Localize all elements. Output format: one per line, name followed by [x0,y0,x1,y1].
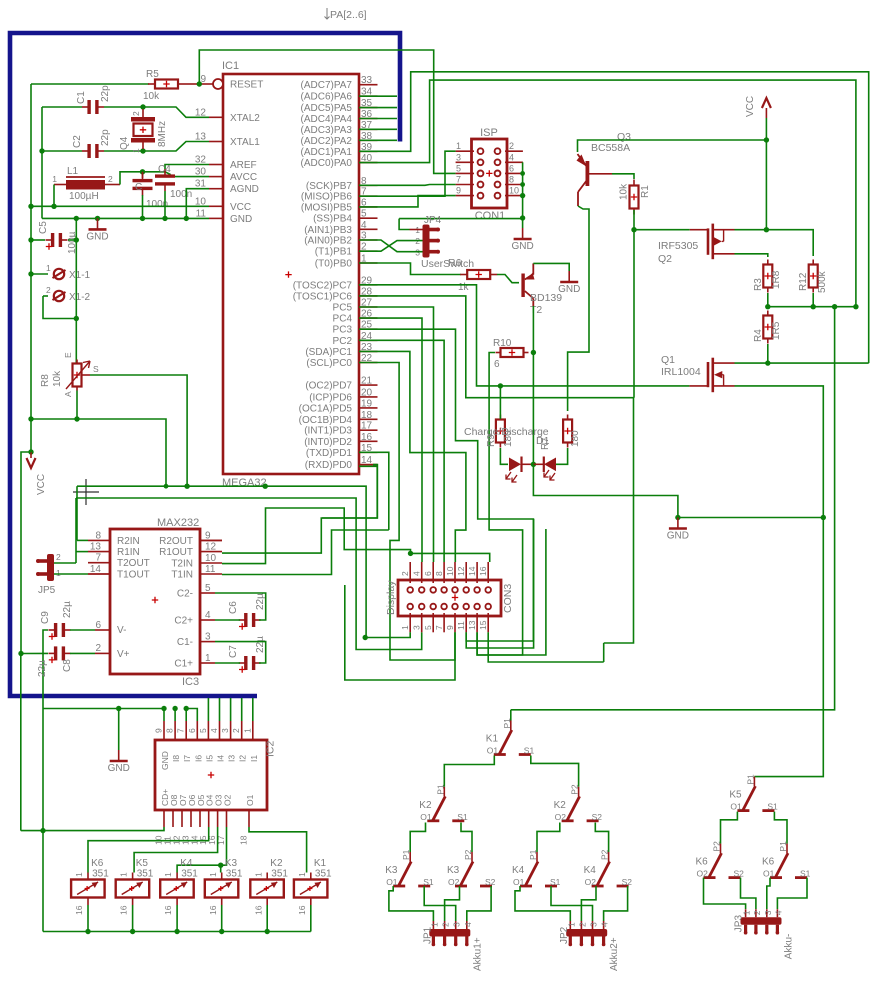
junction LED mid [531,462,536,467]
IC1 pin 40 (ADC0)PA0 [359,162,378,164]
wire pin11 right [466,519,533,648]
svg-text:2: 2 [577,922,587,927]
svg-text:(SCL)PC0: (SCL)PC0 [306,358,352,369]
svg-text:C2+: C2+ [174,616,193,627]
svg-text:1: 1 [742,910,752,915]
capacitor C2 22p [82,150,90,152]
IC3 pin 10 T2IN [200,562,222,564]
svg-text:R7: R7 [540,437,551,450]
wire gate node to Q2 [634,229,690,231]
wire MOSI to ISP9 [359,196,456,207]
svg-text:11: 11 [205,564,216,575]
svg-text:1: 1 [56,568,61,578]
wire JP2 feed [604,886,628,921]
svg-text:1: 1 [400,625,410,630]
wire row486 right [77,486,366,637]
svg-text:MEGA32: MEGA32 [222,477,267,489]
IC1 pin 14 (RXD)PD0 [359,464,378,466]
junction ic2gnd 8 [172,706,177,711]
resistor R6 1k [460,274,467,276]
svg-text:13: 13 [467,620,477,630]
svg-text:K5: K5 [136,858,149,869]
IC1 pin 6 (MOSI)PB5 [359,206,378,208]
wire bus tap to IC2 pin4 [219,698,221,721]
svg-text:S1: S1 [423,877,434,887]
svg-text:IC1: IC1 [222,60,239,72]
IC3 pin 11 T1IN [200,573,222,575]
svg-text:C2-: C2- [177,589,193,600]
wire C3 top [142,172,144,178]
CON3 pin 8 [443,562,445,583]
svg-text:3: 3 [220,728,230,733]
bus tap PA6 [359,95,397,97]
svg-text:C8: C8 [62,659,73,672]
resistor R9 180 [499,415,501,420]
svg-text:X1-1: X1-1 [69,270,91,281]
svg-text:K6: K6 [762,857,775,868]
wire X1-2 to rail [43,296,76,319]
svg-text:6: 6 [423,571,433,576]
IC1 pin 4 (AIN1)PB3 [359,228,378,230]
junction ISP6 [520,171,525,176]
wire GND rail [42,217,209,219]
svg-text:12: 12 [205,542,217,553]
IC2 pin 13 O6 [190,810,192,827]
IC3 pin 5 C2- [200,592,215,594]
svg-text:1R8: 1R8 [771,270,782,289]
svg-text:I3: I3 [227,755,237,762]
svg-text:VCC: VCC [36,474,47,495]
svg-text:P1: P1 [401,849,411,860]
svg-text:K6: K6 [696,857,709,868]
wire ic2 o2 to K4 [177,827,226,873]
junction mid b [811,304,816,309]
svg-text:K6: K6 [91,858,104,869]
connector CON3 display body [398,580,501,616]
junction C5 left [28,237,33,242]
svg-text:6: 6 [509,163,514,173]
IC IC2 body [155,740,267,810]
wire L1 pin2 to AVCC node [120,172,209,185]
sheet cross mark [73,479,99,505]
svg-text:O1: O1 [420,812,432,822]
svg-text:1: 1 [46,263,51,273]
screw terminal X1-2 [43,295,48,297]
IC1 pin 18 (OC1B)PD4 [359,418,378,420]
IC1 pin 23 (SDA)PC1 [359,350,378,352]
wire C5 left [31,239,45,241]
svg-text:6: 6 [95,620,101,631]
svg-text:1: 1 [131,148,141,153]
svg-text:C5: C5 [38,221,49,234]
wire R6 to T2 base [497,275,519,283]
wire Q2 source row [735,229,767,231]
svg-text:351: 351 [181,869,198,880]
junction K3 bottom [219,929,224,934]
CON1 pin 8 [505,184,523,186]
CON3 pin 4 [421,562,423,583]
wire PC6 to Q2 gate chain [359,296,634,398]
svg-text:(MOSI)PB5: (MOSI)PB5 [301,202,353,213]
svg-text:I5: I5 [204,755,214,762]
junction GND rail b [95,216,100,221]
wire left rail vertical [41,107,43,218]
svg-text:3: 3 [412,625,422,630]
svg-text:GND: GND [511,241,533,252]
svg-text:L1: L1 [67,166,79,177]
svg-text:22µ: 22µ [62,601,73,618]
svg-text:VCC: VCC [230,202,251,213]
wire L1 pin1 down [53,185,55,207]
svg-text:7: 7 [95,553,101,564]
svg-text:351: 351 [137,869,154,880]
svg-text:15: 15 [478,620,488,630]
IC1 pin 5 (SS)PB4 [359,217,378,219]
wire gnd chain to pin7 [345,585,455,680]
CON1 pin 3 [456,161,474,163]
IC3 pin 3 C1- [200,641,215,643]
wire R8 wiper to MAX232 row [82,374,91,376]
wire C2+ to C6 [215,619,240,621]
svg-text:S: S [93,364,99,374]
CON1 pin 7 [456,184,474,186]
svg-text:(AIN1)PB3: (AIN1)PB3 [304,225,352,236]
wire Q2 drain to R3 [735,254,768,257]
svg-text:4: 4 [205,610,211,621]
relay contact K4 left [536,852,538,862]
ground symbol left [97,218,99,229]
CON1 pin 4 [505,161,523,163]
IC2 pin 9 GND [163,721,165,740]
wire MAX232 pin13 row [76,551,88,553]
svg-text:2: 2 [231,728,241,733]
svg-text:XTAL2: XTAL2 [230,113,260,124]
IC1 pin 29 (TOSC2)PC7 [359,284,378,286]
wire JP5 pin2 [54,562,76,564]
wire mid rail [768,306,856,308]
svg-text:Q2: Q2 [658,253,672,265]
IC1 pin 22 (SCL)PC0 [359,362,378,364]
svg-text:3: 3 [205,632,211,643]
svg-text:10k: 10k [52,370,63,387]
junction ic2gnd 9 [161,706,166,711]
svg-text:O1: O1 [763,869,775,879]
svg-text:22µ: 22µ [255,593,266,610]
IC1 pin 26 PC4 [359,317,378,319]
CON3 pin 3 [421,613,423,632]
svg-text:IC3: IC3 [182,676,199,688]
junction GND rail c [140,216,145,221]
svg-text:(T0)PB0: (T0)PB0 [315,259,353,270]
wire Q1 source row [735,386,824,518]
wire C8 left [21,652,48,654]
svg-text:I2: I2 [238,755,248,762]
svg-text:P2: P2 [600,849,610,860]
IC1 pin 38 (ADC2)PA2 [359,139,378,141]
junction ISP gnd row [520,215,525,220]
capacitor C4 100n [164,169,166,177]
wire D2 to R7 [556,448,568,464]
screw terminal X1-1 [31,273,48,275]
IC1 pin 19 (OC1A)PD5 [359,407,378,409]
IC3 pin 4 C2+ [200,619,215,621]
svg-text:K3: K3 [447,865,460,876]
svg-text:7: 7 [456,175,461,185]
svg-text:I4: I4 [216,755,226,762]
CON1 pin 9 [456,195,474,197]
wire pin13 right [477,529,546,655]
relay coil K5 351 [132,873,134,880]
svg-text:K4: K4 [512,865,525,876]
svg-text:O1: O1 [245,794,255,806]
svg-text:Q4: Q4 [119,136,130,150]
svg-text:10k: 10k [143,91,160,102]
svg-text:S2: S2 [622,877,633,887]
svg-text:100µH: 100µH [69,191,99,202]
svg-text:22p: 22p [100,129,111,146]
junction mid a [765,304,770,309]
svg-text:IRF5305: IRF5305 [658,240,698,252]
IC1 pin 35 (ADC5)PA5 [359,107,378,109]
svg-text:PC5: PC5 [333,303,353,314]
wire pin15 right [488,632,604,662]
wire PD1 TXD to T1IN [359,452,389,530]
IC IC3 MAX232 body [110,529,200,674]
bus tap PA4 [359,118,397,120]
svg-text:V+: V+ [117,649,130,660]
svg-text:16: 16 [297,905,307,915]
IC2 pin 12 O7 [181,810,183,827]
IC2 pin 18 O1 [248,810,250,827]
svg-text:11: 11 [456,621,466,630]
svg-text:JP1: JP1 [422,926,433,944]
svg-text:AREF: AREF [230,160,257,171]
wire MISO to ISP1 [359,151,456,196]
CON1 pin 10 [505,195,523,197]
wire PB0 to R6 [359,263,461,275]
svg-text:1: 1 [205,653,211,664]
capacitor C5 100u [46,239,54,241]
svg-text:O1: O1 [513,877,525,887]
wire K2L-O1 to K3L [410,823,425,853]
wire Q3 base to R1 [589,173,612,175]
svg-text:1: 1 [253,872,263,877]
wire PC4 to display pin4 [359,318,422,562]
svg-text:4: 4 [773,910,783,915]
svg-text:JP2: JP2 [559,926,570,944]
svg-text:(ADC1)PA1: (ADC1)PA1 [301,147,353,158]
wire R8 bottom [76,391,78,420]
svg-text:MAX232: MAX232 [157,517,199,529]
crystal Q4 8MHz [142,109,144,117]
svg-text:2: 2 [400,571,410,576]
wire JP2 feed [551,886,593,921]
CON3 pin 11 [465,613,467,632]
CON1 pin 1 [456,150,474,152]
svg-text:4: 4 [600,922,610,927]
svg-text:14: 14 [361,455,373,466]
svg-text:R5: R5 [146,69,159,80]
IC3 pin 14 T1OUT [88,573,110,575]
svg-text:16: 16 [253,905,263,915]
svg-text:T2: T2 [530,304,542,316]
relay coil K4 351 [176,873,178,880]
IC1 pin 10 VCC [209,205,223,207]
svg-text:C6: C6 [228,601,239,614]
relay contact K6 left [720,844,722,854]
svg-text:S2: S2 [592,812,603,822]
wire R1OUT to RXD [222,465,377,553]
junction R10 emitter [531,350,536,355]
svg-text:O2: O2 [448,877,460,887]
svg-text:8: 8 [509,175,514,185]
svg-text:16: 16 [478,566,488,576]
connector JP3 [741,917,782,925]
svg-text:(TOSC2)PC7: (TOSC2)PC7 [293,280,353,291]
wire R9 top [499,386,501,419]
svg-text:4: 4 [509,152,514,162]
svg-text:19: 19 [361,398,373,409]
svg-text:S1: S1 [524,746,535,756]
relay contact K3 right [471,852,473,862]
svg-text:5: 5 [456,163,461,173]
svg-text:S1: S1 [457,812,468,822]
svg-text:X1-2: X1-2 [69,292,91,303]
junction K3 drive [218,863,223,868]
svg-text:5: 5 [423,625,433,630]
wire gnd row below max [43,709,164,722]
svg-text:K4: K4 [584,865,597,876]
svg-text:T1IN: T1IN [171,570,193,581]
junction GND mid [675,515,680,520]
svg-text:16: 16 [361,432,373,443]
IC3 pin 6 V- [95,629,110,631]
resistor R5 10k [148,83,155,85]
resistor R10 6 [496,352,501,354]
svg-text:4: 4 [361,220,367,231]
svg-text:R6: R6 [448,257,462,269]
svg-text:GND: GND [667,531,689,542]
IC1 pin 21 (OC2)PD7 [359,384,378,386]
svg-text:R8: R8 [40,374,51,387]
junction Q2 gate node [631,227,636,232]
wire con3 pin16 feed [411,553,490,562]
svg-text:C7: C7 [228,645,239,658]
junction R8 bottom a [74,416,79,421]
junction K6 bottom [85,929,90,934]
wire R9 bottom to LED D1 [500,448,508,464]
svg-text:C1: C1 [76,91,87,104]
svg-text:R1: R1 [640,185,651,198]
IC2 pin 2 I2 [241,721,243,740]
wire SCK to ISP7 [359,184,456,187]
svg-text:I8: I8 [171,755,181,762]
wire MAX232 pin8 row [77,539,88,541]
IC1 pin 36 (ADC4)PA4 [359,118,378,120]
svg-text:(RXD)PD0: (RXD)PD0 [305,460,353,471]
wire K2R-S2 to K4R [595,823,608,853]
svg-text:12: 12 [456,566,466,576]
junction con3 pin2 [408,551,413,556]
junction C5 right [74,237,79,242]
IC1 pin 28 (TOSC1)PC6 [359,295,378,297]
svg-text:ISP: ISP [480,127,498,139]
svg-text:1: 1 [242,728,252,733]
svg-text:R1IN: R1IN [117,547,140,558]
CON1 pin 6 [505,172,523,174]
bus PA[2..6] [10,33,400,696]
svg-text:R4: R4 [753,329,764,342]
svg-text:5: 5 [198,728,208,733]
IC1 pin 37 (ADC3)PA3 [359,128,378,130]
svg-text:AVCC: AVCC [230,172,257,183]
svg-text:(OC1A)PD5: (OC1A)PD5 [299,403,353,414]
svg-text:2: 2 [752,910,762,915]
junction row486 s [164,484,169,489]
svg-text:(ICP)PD6: (ICP)PD6 [309,392,352,403]
IC1 pin 30 AVCC [209,176,223,178]
svg-text:1: 1 [566,922,576,927]
wire JP1 feed [445,886,460,921]
IC1 pin 7 (MISO)PB6 [359,195,378,197]
resistor R12 500k [812,260,814,265]
CON3 pin 5 [432,613,434,632]
wire T2IN to display [222,508,411,564]
junction ISP10 [520,193,525,198]
svg-text:(MISO)PB6: (MISO)PB6 [301,192,353,203]
junction mid d [853,304,858,309]
svg-text:V-: V- [117,625,126,636]
wire C4 bottom [164,191,166,218]
CON3 pin 7 [443,613,445,632]
svg-text:6: 6 [494,359,500,370]
svg-text:10k: 10k [619,183,630,200]
junction RESET [197,81,202,86]
wire gnd row to JP4 pin1 [399,219,409,230]
wire left vert c8 to cd [20,654,22,831]
wire JP1 feed [424,886,456,921]
svg-text:RESET: RESET [230,80,263,91]
svg-text:(INT0)PD2: (INT0)PD2 [304,437,352,448]
wire ic2 o3 to K5 [134,827,218,873]
svg-text:T2OUT: T2OUT [117,558,150,569]
svg-text:Q1: Q1 [661,354,675,366]
junction gnd rail right [821,515,826,520]
CON3 pin 10 [454,562,456,583]
wire relay common rail [43,931,311,933]
svg-text:18: 18 [239,835,249,845]
wire JP2 feed [581,886,596,921]
svg-text:2: 2 [56,552,61,562]
pin header JP5 [47,554,54,581]
wire T1OUT stub [88,573,110,575]
power VCC symbol left [30,452,32,458]
wire left outer vertical [30,84,32,206]
wire C1 to XTAL2 [104,107,209,117]
relay contact K6 right [786,844,788,854]
junction VCC row [764,137,769,142]
svg-text:K2: K2 [554,800,567,811]
svg-text:R2IN: R2IN [117,536,140,547]
bus tap PA3 [359,128,397,130]
LED D1 [509,458,521,472]
relay contact K3 left [409,852,411,862]
svg-text:P2: P2 [570,784,580,795]
svg-text:1: 1 [163,872,173,877]
wire C2 to XTAL1 [104,142,209,152]
transistor Q2 IRF5305 [690,229,707,231]
svg-text:8: 8 [95,530,101,541]
